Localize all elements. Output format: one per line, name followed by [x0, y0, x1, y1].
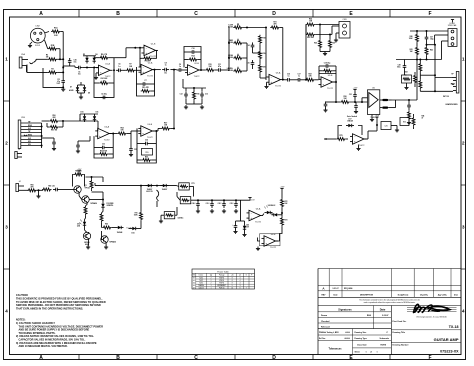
svg-text:Date: Date: [333, 293, 337, 296]
svg-text:C28: C28: [398, 65, 401, 67]
capacitor C21: [354, 92, 356, 95]
power flag: [452, 20, 454, 23]
wire: [60, 189, 74, 191]
capacitor C36: [53, 189, 56, 191]
svg-text:D: D: [272, 11, 276, 17]
resistor R65: [100, 213, 103, 223]
capacitor C28: [404, 60, 406, 64]
ground: [160, 219, 162, 221]
svg-text:TL072: TL072: [275, 85, 282, 87]
svg-text:C12: C12: [180, 94, 183, 96]
ground: [130, 153, 132, 155]
op-amp U1B: [144, 45, 156, 55]
capacitor C44: [235, 223, 237, 226]
ground: [223, 209, 225, 211]
svg-text:R61 C36: R61 C36: [48, 186, 54, 188]
capacitor C14: [252, 43, 254, 46]
resistor R64: [84, 206, 87, 216]
diode D16: [244, 224, 246, 226]
wire: [305, 24, 307, 26]
resistor R30: [340, 101, 350, 104]
svg-text:C15: C15: [247, 63, 250, 65]
LED D12: [84, 220, 86, 222]
diode D15: [130, 228, 132, 230]
svg-text:TL072: TL072: [194, 76, 201, 78]
svg-text:RFQ-0806: RFQ-0806: [344, 288, 352, 290]
ground: [408, 121, 410, 123]
capacitor C15: [252, 60, 254, 63]
capacitor C34 (feedback): [137, 143, 143, 145]
svg-text:R73: R73: [285, 220, 288, 222]
op-amp U2B: [188, 65, 200, 75]
op-amp U6A: [249, 210, 261, 220]
optocoupler U8: [265, 212, 267, 214]
svg-text:Power Table: Power Table: [217, 270, 229, 273]
feedback loop wire: [338, 126, 342, 140]
resistor R55 (feedback): [142, 149, 153, 156]
resistor R43 (boxed): [402, 75, 412, 83]
svg-text:D10: D10: [81, 112, 84, 114]
power flag: [281, 189, 283, 192]
svg-text:TL072: TL072: [199, 277, 203, 279]
svg-text:U7: U7: [193, 288, 195, 290]
pot LEVEL: [233, 70, 243, 73]
company logo: [407, 306, 457, 308]
svg-text:GRN/YEL: GRN/YEL: [107, 205, 114, 207]
svg-text:R20: R20: [263, 67, 266, 69]
svg-text:R72: R72: [285, 201, 288, 203]
ground: [235, 209, 237, 211]
svg-text:R16: R16: [197, 94, 200, 96]
svg-text:TL072: TL072: [147, 137, 154, 139]
svg-text:F: F: [428, 355, 431, 361]
capacitor C10 (feedback): [184, 51, 190, 53]
svg-text:TL072: TL072: [199, 280, 203, 282]
svg-text:A: A: [39, 355, 43, 361]
svg-text:Date: Date: [454, 293, 458, 296]
svg-text:PW/Mold Tooling #, BRO: PW/Mold Tooling #, BRO: [319, 332, 339, 334]
resistor R56 (feedback): [142, 159, 152, 162]
pot LOW: [233, 26, 243, 29]
capacitor C17: [296, 79, 299, 81]
svg-text:U4-A: U4-A: [104, 126, 109, 129]
wire: [427, 44, 435, 46]
svg-text:C4 47p: C4 47p: [101, 93, 107, 96]
svg-text:R26: R26: [314, 43, 317, 45]
resistor R25: [306, 33, 316, 36]
svg-text:TL072: TL072: [147, 75, 154, 77]
svg-text:ROHS: ROHS: [381, 345, 387, 347]
wire: [89, 199, 103, 201]
svg-text:Er-Up(Form): Er-Up(Form): [398, 294, 409, 296]
wire: [324, 52, 326, 54]
capacitor C30: [69, 58, 71, 61]
op-amp U3A: [269, 74, 281, 84]
wire: [185, 99, 187, 104]
svg-text:16: 16: [231, 288, 233, 290]
ground: [87, 245, 89, 247]
wire: [201, 69, 205, 71]
svg-text:R56: R56: [145, 156, 148, 158]
transistor Q1: [74, 186, 81, 193]
svg-text:D13 RED/: D13 RED/: [107, 203, 115, 205]
power supply table: [192, 269, 255, 289]
svg-text:Checked: Checked: [321, 321, 330, 323]
svg-text:B10K: B10K: [228, 26, 234, 28]
svg-text:RLB: RLB: [367, 315, 372, 317]
ferrite bead L2: [380, 107, 382, 109]
diode D11: [94, 114, 96, 116]
svg-text:+15V: +15V: [353, 88, 358, 90]
svg-text:Gain Switch: Gain Switch: [347, 115, 357, 118]
svg-text:B: B: [116, 355, 120, 361]
svg-text:A: A: [39, 11, 43, 17]
svg-text:1: 1: [365, 351, 366, 353]
wire: [41, 123, 43, 148]
svg-text:3-21-07: 3-21-07: [332, 288, 338, 290]
resistor R60: [27, 189, 37, 192]
wire: [243, 27, 266, 29]
resistor R41: [416, 46, 419, 56]
svg-text:600V 1W: 600V 1W: [146, 191, 153, 193]
svg-text:U2-B: U2-B: [194, 63, 199, 65]
wire (tone bus): [228, 27, 230, 71]
svg-text:C33: C33: [102, 144, 105, 146]
svg-text:100p: 100p: [430, 39, 434, 41]
resistor R15: [205, 69, 215, 72]
svg-text:Drawing Size: Drawing Size: [355, 332, 367, 334]
resistor R33: [400, 118, 409, 126]
svg-text:U8 NSL32: U8 NSL32: [268, 205, 276, 207]
resistor R22: [305, 78, 315, 81]
diode D14: [116, 227, 118, 229]
ground: [371, 115, 373, 119]
wire: [45, 32, 50, 34]
resistor R45: [419, 63, 422, 73]
wire: [153, 69, 161, 71]
power amp U5: [368, 90, 380, 115]
resistor R19: [259, 50, 262, 60]
svg-text:J3: J3: [18, 149, 20, 151]
op-amp U2A: [141, 64, 153, 74]
svg-text:-15V: -15V: [375, 115, 380, 117]
svg-text:1: 1: [376, 351, 377, 353]
wire: [123, 69, 126, 71]
resistor R27: [329, 39, 332, 49]
svg-text:U2: U2: [193, 280, 195, 282]
ground: [77, 149, 79, 151]
svg-text:R70: R70: [135, 212, 138, 214]
svg-text:U3-B: U3-B: [328, 75, 333, 77]
wire: [94, 57, 99, 59]
resistor R24: [306, 23, 316, 26]
svg-text:U1-A: U1-A: [105, 62, 110, 65]
wire: [36, 58, 48, 60]
wire: [95, 73, 97, 76]
wire: [280, 214, 283, 216]
wire (rail): [396, 59, 442, 61]
resistor R53 (feedback): [99, 153, 109, 156]
svg-text:8 OHM: 8 OHM: [449, 23, 455, 25]
thermistor RT1 (boxed): [179, 183, 190, 190]
transistor Q2: [82, 196, 89, 203]
jack J1A: [19, 57, 22, 68]
wire: [80, 113, 98, 115]
resistor R42: [425, 46, 428, 56]
wire: [45, 40, 48, 49]
capacitor C9: [177, 69, 180, 71]
svg-text:+15V: +15V: [77, 169, 82, 171]
ground: [185, 105, 187, 107]
svg-text:B10K: B10K: [228, 57, 234, 59]
resistor R32 (zobel): [408, 110, 410, 111]
power flag: [78, 171, 80, 174]
ground: [80, 95, 82, 97]
svg-text:Released: Released: [321, 326, 331, 328]
resistor R44: [414, 74, 417, 84]
ground: [244, 233, 246, 235]
ground: [358, 145, 360, 148]
wire: [442, 40, 449, 42]
resistor R20: [259, 64, 262, 74]
svg-text:U4-B: U4-B: [148, 124, 153, 126]
ground: [211, 209, 213, 211]
power flag: [376, 117, 378, 120]
svg-text:AND 10 MEGOHM DIGITAL VOLTMETE: AND 10 MEGOHM DIGITAL VOLTMETER.: [19, 344, 68, 348]
transistor Q3: [83, 232, 90, 239]
svg-text:07S223-XX: 07S223-XX: [440, 349, 459, 353]
ground: [355, 110, 357, 112]
svg-text:Drawing Type: Drawing Type: [355, 338, 367, 340]
resistor R26: [319, 39, 322, 49]
resistor R11 (feedback): [141, 90, 151, 93]
svg-text:C13: C13: [205, 94, 208, 96]
resistor R61: [42, 188, 52, 191]
svg-text:TL072: TL072: [270, 247, 277, 249]
resistor R51: [49, 126, 59, 129]
resistor R66: [102, 226, 112, 229]
svg-text:C: C: [194, 355, 198, 361]
svg-text:J1B: J1B: [21, 117, 25, 119]
svg-text:1u: 1u: [179, 66, 181, 68]
wire: [109, 133, 117, 135]
wire: [78, 84, 85, 86]
capacitor C8: [162, 69, 165, 71]
capacitor C20: [325, 102, 327, 105]
diode D7 (clamp): [77, 85, 79, 87]
svg-text:DESCRIPTION: DESCRIPTION: [360, 294, 374, 296]
svg-text:R55: R55: [145, 152, 148, 154]
capacitor C41: [211, 201, 213, 204]
wire: [392, 99, 418, 101]
title block grid: [318, 268, 461, 270]
svg-text:R5 4.7K: R5 4.7K: [101, 53, 108, 56]
svg-text:C10: C10: [191, 48, 194, 50]
svg-text:Drawn: Drawn: [321, 315, 328, 317]
svg-text:B10K: B10K: [228, 42, 234, 44]
svg-text:R3: R3: [51, 69, 53, 71]
capacitor C33 (feedback): [94, 147, 100, 149]
svg-text:THAT EXPLAINED IN THE OPERATIN: THAT EXPLAINED IN THE OPERATING INSTRUCT…: [16, 307, 83, 311]
svg-text:TL072: TL072: [359, 145, 366, 147]
pot MID: [233, 42, 243, 45]
jack J3 (line): [15, 152, 17, 159]
feedback loop wire: [137, 128, 156, 163]
svg-text:Signatures: Signatures: [338, 307, 352, 311]
svg-text:+15: +15: [231, 275, 234, 277]
capacitor C42: [223, 201, 225, 204]
diode D2 (rectifier): [161, 185, 163, 187]
svg-text:Class Date: Class Date: [357, 344, 367, 347]
svg-text:TL072: TL072: [255, 221, 262, 223]
svg-text:#####: #####: [345, 332, 350, 334]
ground: [335, 38, 337, 40]
wire: [420, 74, 435, 76]
wire: [130, 47, 140, 49]
wire: [333, 81, 337, 83]
svg-text:R75: R75: [339, 135, 342, 137]
svg-text:R51 1M: R51 1M: [51, 130, 58, 132]
svg-text:Chg'd By: Chg'd By: [420, 294, 428, 296]
svg-text:U2-A: U2-A: [148, 62, 153, 65]
svg-text:R11 47K: R11 47K: [142, 86, 149, 89]
ground: [53, 147, 55, 149]
svg-text:-15: -15: [239, 275, 241, 277]
capacitor C43: [235, 201, 237, 204]
svg-text:100V: 100V: [56, 83, 60, 85]
capacitor C4 (feedback): [101, 96, 104, 98]
feedback loop wire: [152, 50, 156, 58]
switch SW1: [157, 190, 159, 201]
svg-text:B: B: [116, 11, 120, 17]
diode D5 (clamp): [86, 56, 88, 58]
resistor R18: [259, 35, 262, 45]
resistor R72: [281, 198, 284, 208]
svg-text:######: ######: [344, 338, 350, 340]
svg-text:10n: 10n: [164, 73, 167, 75]
resistor R46: [419, 80, 422, 90]
capacitor C13: [201, 92, 203, 95]
svg-text:Device: Device: [199, 275, 204, 277]
jack J4 (footswitch): [16, 184, 19, 192]
wire: [283, 79, 285, 81]
diode D13: [102, 202, 104, 204]
ground: [325, 108, 327, 110]
capacitor C27: [426, 35, 428, 38]
svg-text:TL072: TL072: [104, 139, 111, 141]
resistor R40: [416, 33, 419, 43]
svg-text:D: D: [272, 355, 276, 361]
capacitor C35: [130, 134, 132, 147]
capacitor C31: [53, 138, 55, 140]
wire: [43, 68, 63, 87]
resistor R57: [161, 127, 171, 130]
ground: [38, 194, 40, 196]
svg-text:F: F: [428, 11, 431, 17]
svg-text:HEADPHONES: HEADPHONES: [446, 103, 459, 106]
capacitor C40: [197, 201, 199, 204]
svg-text:R66: R66: [105, 223, 108, 225]
svg-text:XLR-3: XLR-3: [35, 45, 40, 47]
resistor R73: [281, 217, 284, 227]
op-amp U3B: [321, 77, 333, 87]
wire: [26, 65, 28, 73]
resistor R1A: [51, 30, 61, 33]
ground: [201, 105, 203, 107]
ground: [62, 87, 64, 89]
svg-text:R25 10K: R25 10K: [307, 37, 314, 39]
svg-text:TX-18: TX-18: [449, 325, 459, 329]
feedback loop wire: [94, 134, 113, 159]
feedback loop wire: [184, 47, 201, 71]
jack J5 (headphones): [456, 72, 459, 94]
svg-text:D17: D17: [349, 119, 352, 121]
thermal fuse F1 (boxed): [180, 197, 191, 204]
wire: [83, 55, 96, 57]
svg-text:Tolerances: Tolerances: [328, 348, 342, 351]
svg-text:R33: R33: [403, 122, 406, 124]
wire: [416, 31, 418, 33]
svg-text:Drawing Number: Drawing Number: [393, 345, 409, 347]
wire: [336, 32, 339, 34]
svg-text:Ref Doc: Ref Doc: [319, 338, 325, 340]
svg-text:CN2: CN2: [35, 26, 40, 28]
op-amp U4A: [98, 128, 110, 138]
op-amp U4B: [141, 126, 153, 136]
wire: [336, 101, 340, 103]
diode D10: [84, 114, 86, 116]
wire: [435, 77, 452, 79]
svg-text:Date: Date: [380, 307, 386, 311]
transformer T1 (boxed): [164, 212, 175, 219]
connector CN2 (XLR input): [30, 28, 45, 43]
resistor R1B: [48, 47, 58, 50]
svg-text:Package: Package: [219, 275, 225, 277]
svg-text:PDIP-16: PDIP-16: [219, 288, 225, 290]
capacitor C25: [381, 122, 391, 130]
diode D17 (feedback): [346, 125, 348, 127]
wire: [37, 189, 43, 191]
wire: [434, 45, 436, 92]
wire: [324, 138, 336, 140]
resistor R5 (feedback top): [99, 56, 109, 59]
svg-text:10n: 10n: [78, 74, 81, 76]
wire: [184, 69, 188, 71]
svg-text:PDIP-8: PDIP-8: [219, 280, 224, 282]
svg-text:D15: D15: [132, 233, 135, 235]
wire (loop): [276, 232, 282, 242]
jack contact wires: [21, 122, 42, 124]
capacitor C6: [76, 67, 79, 69]
svg-text:R19: R19: [263, 53, 266, 55]
resistor R75: [336, 138, 346, 141]
diode D6 (clamp): [93, 56, 95, 58]
resistor R6 (feedback): [94, 82, 99, 84]
capacitor C22: [355, 103, 357, 106]
resistor R14 (feedback): [184, 59, 188, 61]
capacitor C31: [62, 78, 64, 81]
wire: [319, 25, 321, 40]
ground: [235, 230, 237, 232]
capacitor C16: [285, 79, 288, 81]
resistor R54: [117, 132, 127, 135]
svg-text:D8: D8: [88, 93, 90, 95]
svg-text:10u/35V: 10u/35V: [243, 227, 250, 229]
resistor R21: [270, 26, 280, 29]
wire (channel merge bus): [173, 70, 175, 129]
feedback loop wire: [94, 68, 114, 98]
svg-text:First Used On:: First Used On:: [393, 320, 407, 323]
